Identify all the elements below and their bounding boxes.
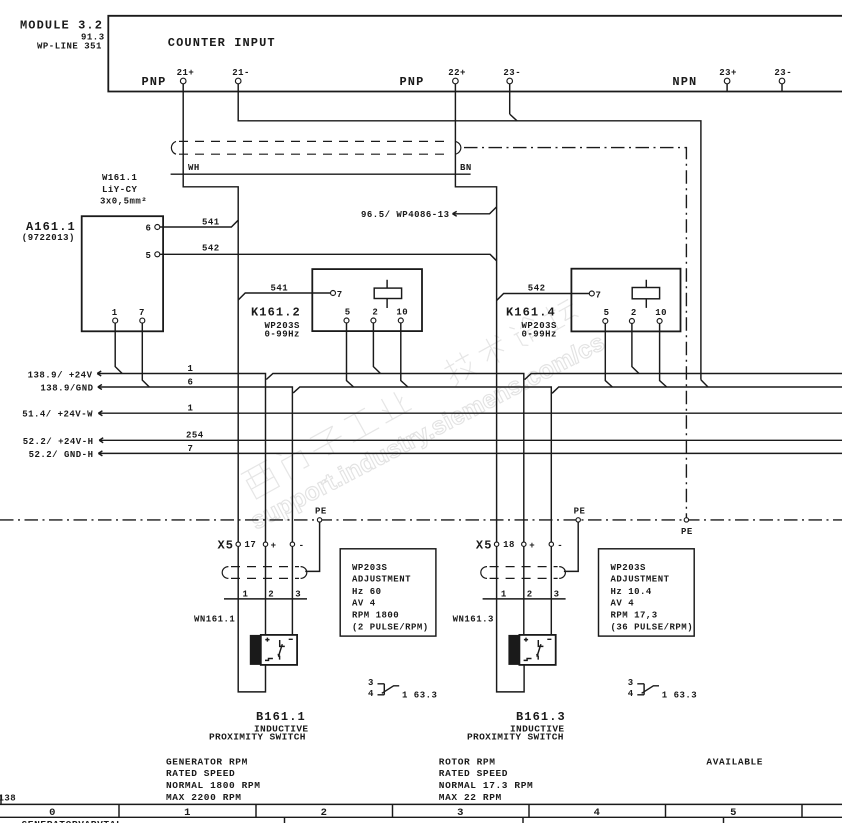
svg-text:X5: X5	[218, 538, 235, 552]
svg-text:0-99Hz: 0-99Hz	[265, 330, 300, 340]
svg-text:18: 18	[503, 540, 515, 550]
svg-text:WP-LINE 351: WP-LINE 351	[37, 42, 102, 52]
svg-text:WN161.3: WN161.3	[453, 615, 494, 625]
svg-text:254: 254	[186, 431, 204, 441]
svg-text:3: 3	[295, 589, 301, 599]
svg-text:MAX 2200 RPM: MAX 2200 RPM	[166, 792, 242, 803]
svg-text:10: 10	[396, 308, 408, 318]
svg-text:A161.1: A161.1	[26, 220, 76, 234]
svg-text:21+: 21+	[177, 68, 195, 78]
svg-text:1: 1	[501, 589, 507, 599]
svg-text:3: 3	[628, 678, 634, 688]
svg-text:1: 1	[188, 404, 194, 414]
svg-text:4: 4	[368, 689, 374, 699]
svg-text:7: 7	[139, 308, 145, 318]
svg-text:1: 1	[112, 308, 118, 318]
svg-text:6: 6	[146, 224, 152, 234]
svg-text:(36 PULSE/RPM): (36 PULSE/RPM)	[611, 623, 694, 633]
svg-text:WH: WH	[188, 163, 200, 173]
svg-text:NORMAL 17.3 RPM: NORMAL 17.3 RPM	[439, 780, 534, 791]
svg-text:WN161.1: WN161.1	[194, 615, 235, 625]
svg-text:Hz 10.4: Hz 10.4	[611, 587, 652, 597]
svg-text:Hz 60: Hz 60	[352, 587, 382, 597]
svg-text:5: 5	[604, 308, 610, 318]
svg-text:6: 6	[188, 377, 194, 387]
svg-text:AV 4: AV 4	[352, 599, 376, 609]
svg-text:NORMAL 1800 RPM: NORMAL 1800 RPM	[166, 780, 261, 791]
svg-text:(2 PULSE/RPM): (2 PULSE/RPM)	[352, 623, 429, 633]
svg-text:5: 5	[345, 308, 351, 318]
svg-text:-: -	[299, 541, 305, 551]
svg-text:NPN: NPN	[672, 75, 697, 89]
svg-text:2: 2	[321, 807, 328, 819]
svg-text:COUNTER INPUT: COUNTER INPUT	[168, 36, 276, 50]
svg-text:52.2/ GND-H: 52.2/ GND-H	[29, 450, 94, 460]
svg-text:WP203S: WP203S	[611, 563, 647, 573]
svg-text:(9722013): (9722013)	[22, 233, 75, 243]
svg-text:PE: PE	[315, 507, 327, 517]
svg-text:MODULE 3.2: MODULE 3.2	[20, 19, 103, 33]
svg-text:10: 10	[655, 308, 667, 318]
svg-text:23-: 23-	[503, 68, 521, 78]
svg-text:PE: PE	[681, 527, 693, 537]
svg-text:AVAILABLE: AVAILABLE	[706, 757, 763, 768]
svg-text:B161.3: B161.3	[516, 710, 566, 724]
svg-text:21-: 21-	[232, 68, 250, 78]
svg-text:7: 7	[337, 290, 343, 300]
svg-text:RPM 17,3: RPM 17,3	[611, 611, 658, 621]
svg-text:138.9/ +24V: 138.9/ +24V	[28, 370, 93, 380]
svg-text:3: 3	[368, 678, 374, 688]
svg-text:PROXIMITY SWITCH: PROXIMITY SWITCH	[209, 732, 306, 743]
svg-text:K161.2: K161.2	[251, 306, 301, 320]
svg-text:7: 7	[596, 291, 602, 301]
svg-text:5: 5	[146, 251, 152, 261]
svg-text:23-: 23-	[774, 68, 792, 78]
svg-text:WP203S: WP203S	[352, 563, 388, 573]
svg-text:17: 17	[245, 540, 257, 550]
svg-text:2: 2	[527, 589, 533, 599]
svg-text:542: 542	[202, 244, 220, 254]
svg-text:+: +	[271, 541, 277, 551]
svg-text:RPM 1800: RPM 1800	[352, 611, 399, 621]
svg-text:W161.1: W161.1	[102, 173, 138, 183]
svg-text:0: 0	[49, 807, 56, 819]
svg-text:PROXIMITY SWITCH: PROXIMITY SWITCH	[467, 732, 564, 743]
svg-text:2: 2	[268, 589, 274, 599]
svg-text:GENERATOR RPM: GENERATOR RPM	[166, 757, 248, 768]
svg-text:3: 3	[457, 807, 464, 819]
svg-text:MAX 22 RPM: MAX 22 RPM	[439, 792, 502, 803]
svg-text:4: 4	[628, 689, 634, 699]
svg-text:96.5/ WP4086-13: 96.5/ WP4086-13	[361, 210, 450, 220]
svg-text:138.9/GND: 138.9/GND	[40, 384, 93, 394]
svg-text:B161.1: B161.1	[256, 710, 306, 724]
svg-text:51.4/ +24V-W: 51.4/ +24V-W	[22, 410, 93, 420]
svg-text:542: 542	[528, 284, 546, 294]
svg-text:ROTOR RPM: ROTOR RPM	[439, 757, 496, 768]
svg-text:3: 3	[554, 589, 560, 599]
svg-text:ADJUSTMENT: ADJUSTMENT	[611, 575, 670, 585]
svg-text:-: -	[557, 541, 563, 551]
svg-text:X5: X5	[476, 538, 493, 552]
svg-text:PE: PE	[574, 507, 586, 517]
svg-text:BN: BN	[460, 163, 472, 173]
svg-text:2: 2	[631, 308, 637, 318]
svg-text:RATED SPEED: RATED SPEED	[166, 768, 235, 779]
svg-text:23+: 23+	[719, 68, 737, 78]
svg-text:1 63.3: 1 63.3	[662, 691, 697, 701]
svg-text:K161.4: K161.4	[506, 306, 556, 320]
svg-text:PNP: PNP	[400, 75, 425, 89]
svg-text:52.2/ +24V-H: 52.2/ +24V-H	[23, 437, 94, 447]
svg-text:7: 7	[188, 444, 194, 454]
svg-text:541: 541	[271, 284, 289, 294]
svg-text:5: 5	[730, 807, 737, 819]
svg-text:AV 4: AV 4	[611, 599, 635, 609]
svg-text:GENERATORVARVTAL: GENERATORVARVTAL	[22, 819, 123, 823]
svg-text:+: +	[529, 541, 535, 551]
svg-text:ADJUSTMENT: ADJUSTMENT	[352, 575, 411, 585]
svg-text:4: 4	[594, 807, 601, 819]
svg-text:1 63.3: 1 63.3	[402, 691, 437, 701]
svg-text:LiY-CY: LiY-CY	[102, 185, 138, 195]
svg-text:1: 1	[184, 807, 191, 819]
svg-text:RATED SPEED: RATED SPEED	[439, 768, 508, 779]
svg-text:138: 138	[0, 794, 16, 804]
svg-text:1: 1	[243, 589, 249, 599]
svg-text:22+: 22+	[448, 68, 466, 78]
svg-text:2: 2	[372, 308, 378, 318]
svg-text:3x0,5mm²: 3x0,5mm²	[100, 197, 147, 207]
svg-text:PNP: PNP	[142, 75, 167, 89]
svg-text:1: 1	[188, 364, 194, 374]
svg-text:0-99Hz: 0-99Hz	[522, 330, 557, 340]
svg-text:541: 541	[202, 218, 220, 228]
